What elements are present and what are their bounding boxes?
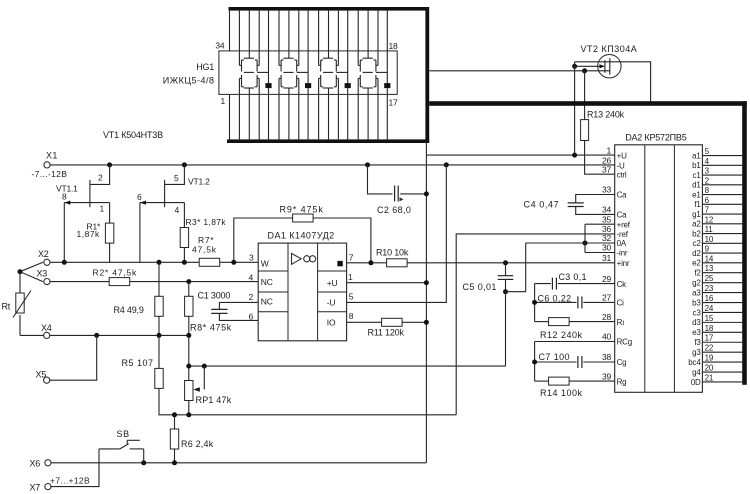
svg-text:38: 38: [602, 352, 612, 362]
svg-text:R9* 475k: R9* 475k: [280, 204, 324, 214]
resistor R10 body: [387, 259, 408, 267]
wire VT2 gate lead: [575, 65, 601, 67]
svg-text:VT1 К504НТ3В: VT1 К504НТ3В: [103, 130, 163, 140]
svg-text:3: 3: [705, 167, 710, 176]
svg-text:6: 6: [249, 312, 254, 322]
node dot X2 row VT1.1 gate: [62, 260, 67, 265]
resistor R7 body: [199, 258, 220, 266]
DA2 output pin d1 wire: [702, 184, 742, 186]
DA2 output pin b2 wire: [702, 233, 742, 235]
RP1 wiper lead: [203, 366, 205, 389]
svg-text:Ca: Ca: [617, 211, 628, 220]
svg-text:R7*: R7*: [198, 235, 214, 245]
DA1 internal divider left: [287, 243, 289, 341]
display HG1 thick frame right bar: [425, 7, 429, 143]
resistor R8 body: [185, 296, 193, 316]
node dot Rt junction: [18, 269, 23, 274]
svg-text:g4: g4: [692, 368, 701, 377]
resistor R2 body: [109, 278, 130, 286]
transistor VT1.2 gate arrowhead: [140, 201, 146, 205]
DA2 output pin e2 wire: [702, 262, 742, 264]
display digit 2 seven-segment symbol: [288, 51, 290, 58]
capacitor C2 polarity mark: [400, 197, 404, 201]
svg-text:C1 3000: C1 3000: [198, 290, 231, 300]
DA1 internal divider right: [317, 243, 319, 341]
svg-text:28: 28: [602, 312, 612, 322]
DA2 output pin g1 wire: [702, 213, 742, 215]
wire SB to X6 row: [143, 449, 145, 463]
DA1 amplifier triangle symbol: [292, 253, 302, 264]
node dot rail C2: [365, 162, 370, 167]
svg-text:2: 2: [705, 176, 710, 185]
DA2 output pin f2 wire: [702, 272, 742, 274]
wire R9 left lead from X2 node: [234, 218, 293, 262]
wire C5 bottom down to wiper bus: [505, 292, 507, 366]
svg-text:ctrl: ctrl: [617, 170, 627, 179]
svg-text:Cg: Cg: [617, 358, 627, 367]
svg-text:R11 120k: R11 120k: [368, 328, 405, 338]
svg-text:R4 49,9: R4 49,9: [114, 305, 144, 315]
wire RCg-Rg riser: [534, 342, 536, 382]
svg-text:bc4: bc4: [688, 358, 701, 367]
display decimal point 3: [345, 83, 351, 88]
node dot X4 row R8: [186, 333, 191, 338]
wire R13 bottom lead to ctrl pin: [585, 141, 615, 175]
svg-text:R8* 475k: R8* 475k: [190, 322, 232, 332]
transistor VT2 symbol: [598, 54, 621, 77]
svg-text:c3: c3: [693, 308, 702, 317]
svg-text:R12 240k: R12 240k: [540, 330, 583, 340]
display decimal point 4: [384, 83, 390, 88]
svg-text:22: 22: [705, 344, 714, 353]
resistor R5 body: [155, 368, 163, 388]
svg-text:34: 34: [602, 205, 612, 215]
svg-text:34: 34: [215, 41, 225, 51]
node dot VT2 gate / pin1 column: [572, 64, 577, 69]
DA2 output pin 0D wire: [702, 381, 742, 383]
DA2 output pin g3 wire: [702, 351, 742, 353]
svg-text:X7: X7: [30, 483, 41, 493]
wire R9 right lead to pin7 node: [313, 218, 371, 263]
svg-text:NC: NC: [261, 277, 273, 287]
DA2 output pin c1 wire: [702, 174, 742, 176]
svg-text:f3: f3: [694, 338, 701, 347]
DA2 output pin b3 wire: [702, 302, 742, 304]
display HG1 thick frame top bar: [229, 7, 430, 11]
resistor R6 body: [170, 429, 178, 449]
DA1 infinity gain symbol: [304, 256, 310, 262]
svg-text:18: 18: [389, 41, 399, 51]
DA2 output pin c2 wire: [702, 242, 742, 244]
svg-text:X3: X3: [37, 269, 48, 279]
svg-text:30: 30: [602, 243, 612, 253]
svg-text:15: 15: [705, 314, 714, 323]
resistor R1 body: [105, 223, 113, 243]
wire R4 bottom to X4 row: [158, 316, 160, 335]
wire X7 up to switch SB: [51, 449, 99, 487]
svg-text:HG1: HG1: [196, 62, 214, 72]
svg-text:21: 21: [705, 373, 714, 382]
DA2 output pin a2 wire: [702, 223, 742, 225]
capacitor C4 plates: [568, 202, 584, 204]
wire R5 top lead: [158, 335, 160, 368]
resistor R4 body: [155, 296, 163, 316]
thermistor Rt lead bottom: [19, 315, 21, 335]
svg-text:6: 6: [705, 196, 710, 205]
wire X3 row to DA1 pin 4: [50, 281, 258, 283]
wire DA1 -U pin5 row and riser to rail: [347, 165, 447, 303]
node dot rail DA1 -U: [444, 162, 449, 167]
wire DA2 pin30 -inr: [585, 252, 615, 254]
resistor R3 body: [180, 228, 188, 248]
capacitor C2 right lead: [400, 193, 426, 195]
wire R6 top lead: [174, 415, 176, 429]
display HG1 bottom pin fan wires (pins 1-17): [229, 94, 231, 139]
svg-text:35: 35: [602, 214, 612, 224]
transistor VT1.1 gate arrowhead: [65, 201, 71, 205]
svg-text:R10 10k: R10 10k: [376, 247, 409, 257]
svg-text:+inr: +inr: [617, 259, 630, 268]
svg-text:VT1.1: VT1.1: [56, 183, 78, 193]
resistor R12 body: [549, 318, 570, 326]
svg-text:R6 2,4k: R6 2,4k: [181, 439, 214, 449]
display decimal point 1: [265, 83, 271, 88]
svg-text:R14 100k: R14 100k: [540, 388, 583, 398]
capacitor C2 left lead: [368, 165, 393, 194]
terminal X6: [45, 460, 51, 466]
wire DA2 pin 1 +U horizontal: [426, 154, 614, 156]
DA1 output square mark: [337, 261, 342, 266]
wire X2 X3 junction diagonals: [20, 262, 43, 281]
transistor VT1.2 gate-source line (pins 6,4): [140, 202, 185, 204]
svg-text:a3: a3: [692, 288, 701, 297]
transistor VT1.1 gate-source line (pins 8,1): [64, 202, 109, 204]
capacitor C7 plates: [577, 356, 579, 368]
wire +U distribution column (display corner to X6 row): [425, 143, 427, 463]
svg-text:5: 5: [174, 173, 179, 183]
wire DA1 +U pin1 row: [347, 282, 427, 284]
node dot X2 row R4: [157, 260, 162, 265]
node dot X6 row SB: [141, 460, 146, 465]
capacitor C5 plates: [498, 275, 514, 277]
svg-text:10: 10: [705, 235, 714, 244]
svg-text:27: 27: [602, 293, 612, 303]
svg-text:Ca: Ca: [617, 191, 628, 200]
svg-text:f2: f2: [694, 269, 701, 278]
wire VT2 source rail to bus bar: [575, 62, 651, 102]
svg-text:+7...+12В: +7...+12В: [50, 475, 90, 485]
svg-text:X4: X4: [41, 323, 52, 333]
thermistor Rt diagonal stroke: [13, 291, 31, 318]
wire negative supply rail X1 to DA2 pin 26: [50, 164, 615, 166]
svg-text:g1: g1: [692, 210, 701, 219]
display digit 4 seven-segment symbol: [367, 51, 369, 58]
svg-text:37: 37: [602, 164, 612, 174]
wire VT2 gate column down to DA2 +U wire: [574, 62, 576, 155]
capacitor C5 bottom lead: [505, 279, 507, 291]
wire Ck-Ri riser: [534, 284, 536, 322]
DA2 output pin c3 wire: [702, 311, 742, 313]
svg-text:C7 100: C7 100: [539, 352, 570, 362]
DA2 internal divider right: [673, 145, 675, 392]
svg-text:4: 4: [175, 205, 180, 215]
svg-text:8: 8: [705, 186, 710, 195]
DA2 output pin b1 wire: [702, 164, 742, 166]
node dot X2 row R3: [182, 260, 187, 265]
DA2 output pin d3 wire: [702, 321, 742, 323]
svg-text:+U: +U: [617, 151, 627, 160]
svg-text:5: 5: [349, 292, 354, 302]
wire R3 bottom to X2 row: [183, 248, 185, 263]
svg-text:1: 1: [606, 145, 611, 155]
resistor R9 body: [293, 214, 314, 222]
svg-text:1,87k: 1,87k: [77, 229, 101, 239]
wire C7 right lead: [583, 361, 614, 363]
svg-text:e3: e3: [692, 328, 701, 337]
node dot +U column R11: [424, 320, 429, 325]
RP1 wiper arrowhead: [193, 387, 199, 392]
wire VT1.1 source down to R1: [109, 203, 111, 224]
node dot 0A ref tie: [583, 241, 588, 246]
display HG1 thick frame bottom bar: [227, 139, 429, 143]
node dot X3 row R8: [186, 279, 191, 284]
svg-text:VT1.2: VT1.2: [188, 177, 210, 187]
svg-text:b2: b2: [692, 229, 701, 238]
node dot rail VT1.2 drain: [182, 162, 187, 167]
svg-text:17: 17: [389, 97, 399, 107]
DA2 output pin e1 wire: [702, 194, 742, 196]
VT2 gate arrowhead: [600, 64, 606, 68]
svg-text:R13 240k: R13 240k: [587, 110, 625, 120]
wire DA2 pin39 Rg: [535, 380, 549, 382]
capacitor C5 top lead: [505, 263, 507, 276]
svg-text:Rt: Rt: [2, 302, 11, 312]
wire R13 top lead: [584, 71, 586, 120]
wire DA2 pin33 Ca: [576, 195, 615, 203]
wire RP1 bottom lead: [188, 401, 190, 415]
wire VT1.1 gate down to X2 row: [63, 203, 65, 263]
svg-text:+U: +U: [327, 278, 338, 288]
thick bus bar horizontal: [429, 101, 747, 106]
svg-text:1: 1: [348, 272, 353, 282]
display decimal point 2: [305, 83, 311, 88]
wire R1 bottom to X2 row: [109, 243, 111, 262]
op-amp DA1 K1407UD2 box: [258, 243, 346, 341]
svg-text:2: 2: [98, 173, 103, 183]
DA1 right cell dividers: [318, 270, 347, 272]
DA2 output pin d2 wire: [702, 252, 742, 254]
svg-text:Ci: Ci: [617, 299, 625, 308]
svg-text:RP1 47k: RP1 47k: [196, 395, 232, 405]
svg-text:1: 1: [221, 96, 226, 106]
svg-text:e2: e2: [692, 259, 701, 268]
switch SB contacts and blade: [99, 448, 120, 450]
svg-text:b3: b3: [692, 298, 701, 307]
node dot R13 top column: [582, 68, 587, 73]
wire R4 column from X2 row: [158, 262, 160, 296]
svg-text:-7...-12В: -7...-12В: [32, 169, 68, 179]
svg-text:c1: c1: [693, 171, 702, 180]
svg-text:IO: IO: [327, 317, 336, 327]
svg-text:4: 4: [249, 272, 254, 282]
wire R11 right lead: [402, 321, 426, 323]
svg-text:13: 13: [705, 264, 714, 273]
svg-text:12: 12: [705, 215, 714, 224]
node dot wiper bus wiper lead: [202, 364, 207, 369]
svg-text:Rg: Rg: [617, 377, 627, 386]
wire VT1.2 source down to R3: [183, 203, 185, 228]
wire DA2 pin34 Ca: [576, 207, 615, 215]
capacitor C2 plates: [394, 186, 396, 202]
svg-text:c2: c2: [693, 239, 702, 248]
wire DA2 pin29 Ck with C3: [535, 283, 551, 285]
display digit 3 seven-segment symbol: [328, 51, 330, 58]
node dot C5 bottom junction: [503, 289, 508, 294]
wire X4 row: [20, 334, 189, 336]
display HG1 top pin fan wires (pins 34-18): [229, 11, 231, 51]
svg-text:Ck: Ck: [617, 280, 628, 289]
wire X2 row to DA1 pin 3: [50, 261, 258, 263]
svg-text:g2: g2: [692, 278, 701, 287]
svg-text:17: 17: [705, 334, 714, 343]
svg-text:0D: 0D: [691, 378, 701, 387]
wire C3 right lead: [558, 283, 615, 285]
svg-text:2: 2: [249, 292, 254, 302]
wire DA2 pin40 RCg: [535, 341, 615, 343]
capacitor C6 plates: [577, 296, 579, 308]
transistor VT1.1 channel: [89, 180, 91, 207]
terminal X2: [44, 259, 50, 265]
DA2 output pin f3 wire: [702, 341, 742, 343]
terminal X7: [45, 484, 51, 490]
wire DA1 pin7 output row to DA2 pin 31: [347, 262, 615, 264]
node dot Ci riser: [532, 300, 537, 305]
wire VT1.2 gate down to X2 row: [139, 203, 141, 263]
wire DA1 pin8 row: [347, 321, 382, 323]
wire DA2 pin35 +ref and tie down to pin30: [585, 223, 615, 225]
wire X6 row to +U column: [51, 462, 426, 464]
wire R8 bottom through X4 row to RP1: [188, 316, 190, 380]
DA2 output pin g2 wire: [702, 282, 742, 284]
wire C6 right lead: [583, 301, 614, 303]
node dot X6 row R6: [172, 460, 177, 465]
svg-text:b1: b1: [692, 161, 701, 170]
node dot long wire R6: [172, 412, 177, 417]
node dot output row C5: [503, 260, 508, 265]
svg-text:g3: g3: [692, 348, 701, 357]
svg-text:R5 107: R5 107: [122, 358, 154, 368]
wire DA2 pin27 Ci with C6: [535, 301, 577, 303]
svg-text:-ref: -ref: [617, 230, 629, 239]
svg-text:32: 32: [602, 233, 612, 243]
node dot wiper bus R8 column: [186, 364, 191, 369]
transistor VT1.2 drain lead to rail (pin 5): [165, 165, 185, 185]
wire R12 right lead: [569, 321, 615, 323]
svg-text:39: 39: [602, 371, 612, 381]
potentiometer RP1 body: [185, 381, 193, 401]
node dot X4 row X5 branch: [94, 333, 99, 338]
wire C5 bottom to 0A riser: [506, 243, 526, 292]
DA2 internal divider left: [644, 145, 646, 392]
svg-text:a1: a1: [692, 151, 701, 160]
svg-text:4: 4: [705, 157, 710, 166]
svg-text:18: 18: [705, 324, 714, 333]
node dot pin7 R9 junction: [368, 260, 373, 265]
svg-text:Rı: Rı: [617, 318, 625, 327]
wire X5 branch: [50, 335, 97, 380]
svg-text:14: 14: [705, 254, 714, 263]
svg-text:9: 9: [705, 245, 710, 254]
display digit 1 seven-segment symbol: [248, 51, 250, 58]
svg-text:7: 7: [705, 206, 710, 215]
svg-text:-U: -U: [327, 297, 336, 307]
op-amp DA2 KR572PV5 box: [615, 145, 703, 392]
svg-text:19: 19: [705, 354, 714, 363]
svg-text:R3* 1,87k: R3* 1,87k: [186, 217, 227, 227]
svg-text:ИЖКЦ5-4/8: ИЖКЦ5-4/8: [163, 75, 215, 85]
terminal X3: [44, 279, 50, 285]
node dot rail VT1.1 drain: [107, 162, 112, 167]
svg-text:33: 33: [602, 185, 612, 195]
svg-text:R2* 47,5k: R2* 47,5k: [93, 267, 138, 277]
thermistor Rt lead top: [19, 272, 21, 293]
svg-text:40: 40: [602, 332, 612, 342]
node dot pin1 wire / VT2 gate column: [572, 153, 577, 158]
capacitor C1 lead pin2: [219, 302, 258, 309]
DA1 left cell dividers: [258, 270, 288, 272]
svg-text:C2 68,0: C2 68,0: [377, 205, 411, 215]
svg-text:16: 16: [705, 294, 714, 303]
svg-text:X2: X2: [38, 249, 49, 259]
svg-text:d1: d1: [692, 181, 701, 190]
svg-text:47,5k: 47,5k: [192, 245, 217, 255]
node dot Cg riser: [532, 360, 537, 365]
node dot long wire RP1: [186, 412, 191, 417]
svg-text:20: 20: [705, 364, 714, 373]
svg-text:6: 6: [137, 192, 142, 202]
svg-text:f1: f1: [694, 200, 701, 209]
capacitor C3 plates: [551, 278, 553, 290]
wire R6 bottom lead: [174, 449, 176, 463]
svg-text:SB: SB: [117, 429, 130, 439]
svg-text:C3 0,1: C3 0,1: [559, 272, 587, 282]
svg-text:NC: NC: [261, 297, 273, 307]
svg-text:8: 8: [349, 311, 354, 321]
transistor VT1.2 channel: [164, 180, 166, 207]
DA2 output pin bc4 wire: [702, 361, 742, 363]
DA2 output pin g4 wire: [702, 371, 742, 373]
transistor VT1.1 drain lead to rail (pin 2): [90, 165, 110, 185]
svg-text:C5 0,01: C5 0,01: [463, 282, 497, 292]
wire DA2 pin32 0A: [526, 242, 615, 244]
svg-text:5: 5: [705, 147, 710, 156]
svg-text:W: W: [261, 258, 269, 268]
svg-text:X6: X6: [30, 459, 41, 469]
svg-text:d3: d3: [692, 318, 701, 327]
svg-text:23: 23: [705, 284, 714, 293]
wire R14 right lead: [569, 380, 615, 382]
DA2 output pin e3 wire: [702, 331, 742, 333]
wire R5 bottom corner to long wire: [159, 388, 456, 414]
svg-text:DA2 КР572ПВ5: DA2 КР572ПВ5: [625, 133, 687, 143]
wire DA2 pin28 Ri: [535, 321, 549, 323]
wire display backplane to VT2 source node: [429, 70, 609, 72]
svg-text:25: 25: [705, 274, 714, 283]
wire RP1 wiper bus: [189, 365, 506, 367]
svg-text:29: 29: [602, 274, 612, 284]
thermistor Rt body: [16, 293, 24, 313]
DA2 output pin a3 wire: [702, 292, 742, 294]
